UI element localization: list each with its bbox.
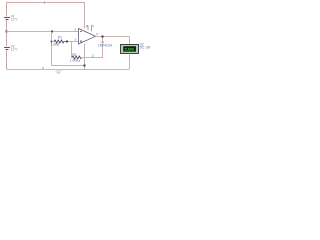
svg-text:1.0kΩ: 1.0kΩ (70, 58, 79, 62)
wire left rail upper (V1 top lead) (6, 3, 8, 17)
op-amp U1 (79, 29, 96, 45)
resistor R2 (72, 56, 82, 59)
svg-text:0: 0 (42, 67, 44, 71)
svg-text:R1: R1 (58, 36, 62, 40)
pin 1 stub (87, 26, 89, 31)
wire R1 left lead (52, 41, 55, 43)
node battery midpoint junction (6, 31, 8, 33)
battery V2 (4, 48, 10, 50)
wire vertical from tap down through R1 left to bottom jog (52, 32, 86, 66)
label U2 (140, 42, 152, 49)
svg-text:1.0kΩ: 1.0kΩ (51, 42, 60, 46)
svg-text:DC 10M: DC 10M (140, 45, 150, 49)
wire inverting input row y=31 (7, 31, 79, 33)
resistor R1 (54, 40, 66, 43)
svg-text:12 V: 12 V (11, 17, 18, 21)
svg-text:LM741CH: LM741CH (98, 43, 113, 47)
node feedback tap junction on inverting row (51, 31, 53, 33)
svg-text:2: 2 (92, 54, 94, 58)
svg-text:5.600: 5.600 (125, 48, 134, 52)
wire R2 drop from plus-input row (71, 42, 73, 58)
wire feedback vertical up to output node (102, 37, 104, 58)
ground (56, 70, 62, 74)
pin 5 stub (91, 25, 93, 32)
node R1 left junction (51, 41, 53, 43)
wire V2 top lead from midpoint (6, 32, 8, 47)
svg-text:12 V: 12 V (11, 47, 18, 51)
label V1 value text (11, 15, 18, 22)
wire R2 right to feedback vertical (81, 57, 104, 59)
wire op-amp output to voltmeter corner (96, 36, 130, 38)
svg-text:R2: R2 (72, 53, 76, 57)
battery V1 (4, 18, 10, 20)
wire voltmeter top lead (129, 37, 131, 45)
wire V1 bottom lead to mid junction (6, 20, 8, 32)
svg-text:1: 1 (44, 0, 46, 4)
wire V2 bottom lead down to bottom rail (6, 50, 8, 70)
label V2 value text (11, 45, 18, 52)
wire bottom ground rail (7, 69, 130, 71)
voltmeter U2 (121, 45, 139, 54)
node R1 right junction (66, 41, 68, 43)
wire top rail from V1 plus to op-amp V+ corner (6, 2, 85, 4)
node output junction (102, 36, 104, 38)
wire voltmeter bottom lead to rail (129, 54, 131, 70)
wire V+ supply drop (84, 3, 86, 29)
wire R1 right to plus input (66, 41, 79, 43)
node junction of R1 ground jog with V- wire (84, 65, 86, 67)
wire op-amp V- supply down to bottom rail (84, 44, 86, 70)
